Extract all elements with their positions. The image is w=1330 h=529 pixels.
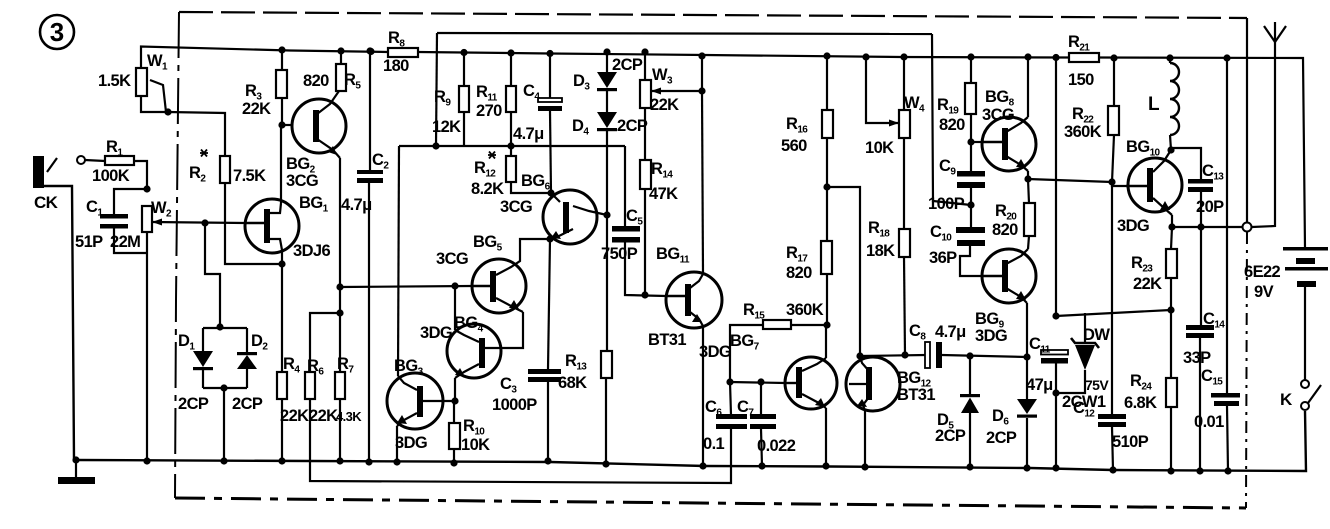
CK jack tip contact	[47, 158, 57, 172]
svg-text:3CG: 3CG	[500, 198, 532, 216]
wire L bottom	[1170, 135, 1171, 150]
wire +9V top rail middle segment	[418, 52, 1069, 58]
node BG6 emitter/BG5 collector/C3	[546, 235, 553, 242]
svg-text:68K: 68K	[558, 374, 587, 392]
BG6 emitter lead	[550, 229, 573, 239]
junction W2 ground	[143, 457, 150, 464]
battery negative plate 2	[1297, 281, 1316, 287]
svg-text:180: 180	[383, 57, 409, 75]
wire C9-C10	[970, 188, 972, 227]
BG8 emitter arrow	[1016, 159, 1026, 168]
resistor R15	[763, 320, 791, 329]
wire C2 top	[369, 51, 371, 171]
svg-text:18K: 18K	[866, 242, 895, 260]
diode D6	[1017, 399, 1037, 414]
BG8 emitter lead	[1006, 156, 1028, 171]
D5 cathode bar	[960, 394, 980, 397]
wire BG8 emitter	[1027, 171, 1029, 179]
junction W4 rail	[900, 53, 907, 60]
svg-text:3CG: 3CG	[982, 106, 1014, 124]
transistor BG7	[785, 357, 837, 409]
BG1 gate lead	[245, 222, 264, 224]
node D5	[966, 352, 973, 359]
wire R19 bottom to C9	[970, 114, 972, 171]
resistor R5	[336, 64, 346, 91]
wire R10 to ground	[453, 449, 455, 463]
wire R20 to BG9 collector	[1028, 236, 1029, 249]
W2 wiper arrow	[152, 219, 162, 226]
junction R10 ground	[450, 459, 457, 466]
battery positive plate	[1283, 247, 1328, 251]
junction R9 rail	[460, 49, 467, 56]
BG3 collector lead	[398, 376, 417, 390]
BG10 emitter arrow	[1160, 201, 1170, 210]
BG7 base lead	[785, 382, 796, 384]
BG1 bar	[264, 209, 270, 243]
BG11 emitter arrow	[692, 314, 702, 322]
junction R6/R7	[336, 309, 343, 316]
svg-text:1000P: 1000P	[492, 396, 537, 414]
BG8 bar	[1002, 128, 1008, 160]
capacitor C13 top plate	[1188, 179, 1213, 184]
capacitor C7 bottom plate	[750, 424, 776, 429]
BG12 base lead	[849, 383, 866, 385]
CK tip terminal	[77, 156, 85, 164]
capacitor C5 bottom plate	[612, 237, 640, 243]
wire W4 wiper from rail	[866, 57, 899, 123]
wire R12 top	[510, 146, 512, 156]
node C11/DW top	[1052, 312, 1059, 319]
capacitor C6 bottom plate	[716, 424, 747, 429]
wire R7 to ground	[339, 399, 341, 461]
diode D4	[597, 112, 617, 128]
BG4 collector lead	[455, 330, 479, 342]
wire R4 to ground	[281, 399, 283, 461]
junction C13/antenna wire	[1197, 223, 1204, 230]
svg-text:7.5K: 7.5K	[233, 167, 266, 185]
transistor BG1	[245, 199, 299, 253]
node BG12 collector	[856, 352, 863, 359]
capacitor C8 left plate	[925, 342, 930, 368]
D4 cathode bar	[597, 128, 617, 131]
junction before R8	[367, 48, 374, 55]
capacitor C5 top plate	[612, 226, 640, 232]
resistor R17	[821, 241, 832, 274]
svg-text:22K: 22K	[650, 96, 679, 114]
svg-text:3CG: 3CG	[436, 250, 468, 268]
resistor R23	[1166, 249, 1177, 278]
svg-text:BT31: BT31	[897, 386, 935, 404]
wire R6 bottom feedback bus to C6	[310, 399, 731, 483]
junction R3 rail	[278, 46, 285, 53]
wire node down to C12	[1111, 186, 1113, 414]
svg-text:360K: 360K	[1064, 123, 1102, 141]
wire C10 bottom to BG9 base	[960, 246, 982, 276]
BG12 emitter lead	[863, 397, 869, 411]
wire to C5 top	[624, 146, 626, 226]
BG4 emitter arrow	[455, 368, 465, 377]
junction C12 ground	[1109, 466, 1116, 473]
node L/BG10 collector/C13	[1167, 146, 1174, 153]
wire R16 top	[826, 56, 828, 110]
node R15/R17/BG7 collector	[823, 321, 830, 328]
BG9 emitter arrow	[1016, 291, 1026, 300]
svg-text:2CP: 2CP	[232, 395, 263, 413]
node C4/BG6 base	[547, 189, 554, 196]
svg-text:3CG: 3CG	[286, 172, 318, 190]
node C9/C10 divider	[967, 201, 974, 208]
switch K upper contact	[1301, 380, 1309, 388]
wire R23 bottom	[1170, 278, 1172, 310]
svg-text:510P: 510P	[1112, 433, 1149, 451]
BG12 collector lead	[860, 356, 869, 371]
wire limiter top bus	[203, 327, 247, 329]
wire R6 top link	[310, 313, 340, 372]
enclosure border left (dash-dot)	[175, 12, 179, 498]
svg-text:8.2K: 8.2K	[471, 180, 504, 198]
battery negative plate 1	[1296, 258, 1315, 264]
BG7 collector lead	[802, 358, 826, 371]
svg-text:360K: 360K	[786, 301, 824, 319]
BG5 collector lead to BG6 emitter node	[496, 239, 550, 275]
wire R3 top	[281, 50, 283, 70]
wire to C1 top	[114, 189, 147, 214]
wire W2 bottom to ground rail	[146, 232, 148, 461]
svg-text:22K: 22K	[242, 100, 271, 118]
node BG3 base/R10	[451, 397, 458, 404]
wire R22 top	[1113, 58, 1115, 106]
node W2 wiper	[201, 219, 208, 226]
potentiometer W1	[136, 68, 147, 96]
BG11 base lead	[666, 295, 685, 297]
BG4 bar	[479, 338, 485, 368]
BG12 bar	[866, 367, 872, 400]
BG6 base lead	[551, 193, 560, 202]
wire C3 top	[548, 239, 550, 369]
svg-text:0.022: 0.022	[757, 437, 796, 455]
svg-text:33P: 33P	[1183, 349, 1211, 367]
wire C14 to ground	[1199, 338, 1201, 471]
svg-text:10K: 10K	[461, 436, 490, 454]
capacitor C9 top plate	[957, 171, 985, 177]
wire W3 wiper	[651, 90, 702, 92]
svg-text:3DG: 3DG	[420, 324, 452, 342]
wire BG1 source	[281, 250, 283, 264]
svg-text:4.7μ: 4.7μ	[341, 196, 372, 214]
capacitor C4 top plate	[538, 98, 562, 102]
wire R20 top	[1028, 179, 1029, 203]
BG3 base lead to node	[423, 400, 455, 402]
junction BG11 ground	[699, 462, 706, 469]
resistor R6	[305, 372, 315, 399]
node R1/W2/C1	[143, 185, 150, 192]
wire C4 bottom	[550, 111, 551, 193]
svg-text:22K: 22K	[280, 407, 309, 425]
svg-text:820: 820	[303, 72, 329, 90]
BG1 source lead inner	[270, 239, 282, 250]
wire +9V top rail left segment	[141, 47, 388, 68]
capacitor C15 top plate	[1211, 393, 1240, 398]
wire BG4 collector up	[454, 286, 456, 330]
capacitor C14 top plate	[1186, 325, 1214, 330]
wire BG8 collector to rail	[1027, 57, 1029, 117]
BG8 collector lead	[1006, 117, 1028, 132]
BG10 collector lead	[1153, 150, 1171, 172]
wire C1 bottom to W2 line	[114, 228, 147, 253]
BG3 bar	[417, 386, 423, 417]
svg-text:560: 560	[781, 137, 807, 155]
resistor R24	[1166, 378, 1177, 407]
resistor R10	[449, 423, 460, 449]
wire R23 top	[1171, 227, 1172, 249]
svg-text:1.5K: 1.5K	[98, 72, 131, 90]
node R11/R12	[507, 142, 514, 149]
BG2 collector lead	[317, 91, 339, 114]
svg-text:47μ: 47μ	[1026, 376, 1053, 394]
junction BG7 ground	[822, 462, 829, 469]
wire antenna lead	[1252, 42, 1275, 227]
BG9 collector lead	[1006, 249, 1028, 264]
junction limiter bottom	[220, 384, 227, 391]
ground	[58, 477, 95, 484]
wire BG7 collector up	[825, 325, 827, 358]
BG2 emitter arrow	[328, 146, 337, 155]
svg-text:2CP: 2CP	[935, 427, 966, 445]
W1 wiper arm	[150, 80, 166, 112]
wire bus to C8	[860, 355, 926, 356]
node bypass/R9	[432, 142, 439, 149]
resistor R22	[1108, 106, 1119, 135]
capacitor C6 top plate	[716, 414, 747, 419]
wire to R4	[281, 264, 283, 372]
junction C4 rail	[546, 50, 553, 57]
svg-text:75V: 75V	[1085, 377, 1109, 393]
wire limiter bottom bus	[203, 387, 247, 389]
svg-text:3DG: 3DG	[395, 434, 427, 452]
svg-text:0.01: 0.01	[1194, 413, 1224, 431]
figure number 3	[40, 15, 74, 49]
svg-text:820: 820	[992, 221, 1018, 239]
wire D5 anode to ground	[969, 413, 971, 467]
microphone jack CK body	[33, 156, 44, 188]
wire C7 bottom to ground	[761, 429, 762, 466]
svg-text:2CP: 2CP	[986, 429, 1017, 447]
diode D3	[597, 72, 617, 88]
wire BG10 base	[1112, 182, 1126, 186]
wire C7 top	[760, 382, 762, 415]
capacitor C3 top plate	[528, 369, 561, 374]
capacitor C7 top plate	[750, 414, 776, 419]
wire R12 bottom to BG6 base	[511, 182, 551, 193]
junction W4 wiper rail	[862, 53, 869, 60]
node BG6 collector	[603, 211, 610, 218]
node R22/BG10 base/C12	[1108, 178, 1115, 185]
wire ground stub	[75, 460, 77, 477]
junction limiter ground	[220, 457, 227, 464]
potentiometer W2	[142, 206, 152, 232]
BG9 bar	[1002, 260, 1008, 292]
wire R15 right to collector node	[791, 324, 827, 326]
svg-text:K: K	[1280, 390, 1293, 409]
wire bypass right drop to C9/C10 node	[932, 34, 971, 205]
transistor BG9	[982, 249, 1036, 303]
wire C11 bottom	[1055, 363, 1057, 393]
svg-text:750P: 750P	[601, 245, 638, 263]
BG11 emitter lead	[690, 312, 703, 326]
BG10 bar	[1147, 168, 1153, 202]
wire D3 anode	[606, 52, 608, 72]
W4 wiper arrow	[889, 120, 899, 127]
D2 cathode bar	[237, 352, 257, 355]
wire limiter to ground	[223, 388, 225, 461]
node R19/BG8 base	[967, 138, 974, 145]
wire C4 top	[549, 54, 551, 100]
wire R18 bottom	[904, 257, 905, 355]
wire R11 top	[510, 53, 512, 86]
node BG9 emitter/D6	[1023, 353, 1030, 360]
svg-text:47K: 47K	[649, 185, 678, 203]
wire wiper node to rail	[701, 56, 703, 91]
junction R22 rail	[1110, 54, 1117, 61]
BG11 collector lead	[690, 274, 703, 288]
junction C3 ground	[544, 457, 551, 464]
capacitor C4 bottom plate	[538, 106, 562, 111]
BG9 base lead	[982, 275, 1002, 277]
resistor R18	[899, 229, 910, 257]
wire L node to C13	[1171, 148, 1201, 179]
BG12 emitter arrow	[857, 399, 867, 407]
wire C13 bottom to C14	[1200, 191, 1202, 326]
wire CK to R1	[85, 160, 105, 161]
wire D5 cathode up	[969, 356, 971, 395]
junction D6 ground	[1023, 464, 1030, 471]
svg-text:L: L	[1148, 94, 1160, 115]
wire R22 bottom	[1112, 135, 1114, 182]
wire R2 bottom to BG1 source	[225, 183, 282, 264]
wire BG7 emitter to ground	[825, 408, 827, 466]
junction R19 rail	[967, 53, 974, 60]
svg-text:22K: 22K	[309, 407, 338, 425]
svg-text:6.8K: 6.8K	[1124, 394, 1157, 412]
resistor R9	[459, 86, 469, 112]
resistor R14	[640, 160, 651, 189]
diode D1	[193, 351, 213, 367]
wire rail to C11/DW	[1055, 58, 1057, 317]
BG8 base lead	[982, 141, 1002, 143]
node R23/R24/zener	[1167, 306, 1174, 313]
svg-text:6E22: 6E22	[1244, 263, 1281, 281]
svg-text:BT31: BT31	[648, 331, 686, 349]
svg-text:4.7μ: 4.7μ	[513, 125, 544, 143]
BG6 collector lead	[573, 206, 607, 215]
wire C5 bottom to BG11 base	[625, 242, 666, 296]
junction limiter top	[216, 323, 223, 330]
wire top rail right segment to battery	[1099, 58, 1305, 249]
junction wiper rail	[698, 52, 705, 59]
capacitor C12 top plate	[1098, 414, 1126, 419]
BG5 base lead	[471, 285, 490, 287]
BG6 bar	[563, 202, 569, 233]
wire D6 cathode to ground	[1026, 418, 1028, 468]
svg-text:51P: 51P	[75, 233, 103, 251]
D6 cathode bar	[1017, 415, 1037, 418]
junction R4 ground	[278, 457, 285, 464]
junction C14 ground	[1196, 467, 1203, 474]
DW zener cathode bar	[1071, 338, 1099, 348]
transistor BG3	[387, 373, 443, 429]
switch K lower contact	[1301, 402, 1309, 410]
junction R16 rail	[823, 52, 830, 59]
wire BG3 collector drop x398	[398, 146, 399, 376]
transistor BG10	[1128, 158, 1182, 212]
junction R5 rail	[337, 47, 344, 54]
wire BG3 emitter to ground	[396, 426, 398, 462]
node C7/BG7 base	[757, 378, 764, 385]
wire DW cathode	[1084, 313, 1086, 344]
wire BG2 emitter down	[339, 158, 341, 287]
wire W1 node to R2 top	[168, 112, 225, 156]
wire BG1 drain to R3/BG2 base	[280, 125, 282, 203]
BG4 emitter lead	[455, 364, 479, 378]
junction D5 ground	[966, 463, 973, 470]
BG7 emitter lead	[802, 394, 826, 408]
node BG4 collector/BG5 base	[451, 282, 458, 289]
enclosure border bottom (dashed)	[175, 498, 1246, 508]
svg-text:3DG: 3DG	[1117, 217, 1149, 235]
svg-text:3DG: 3DG	[975, 327, 1007, 345]
wire BG9 emitter down	[1026, 303, 1028, 357]
node W3 wiper	[698, 87, 705, 94]
junction W3 rail	[641, 48, 648, 55]
svg-text:270: 270	[476, 102, 502, 120]
wire bypass top y33	[437, 33, 932, 34]
wire BG7 base bus	[730, 382, 785, 383]
wire W4 top	[903, 57, 905, 110]
wire D4 cathode down to R13	[606, 131, 608, 351]
junction D3 rail	[603, 48, 610, 55]
node R14/C5/BG11 base	[641, 291, 648, 298]
junction C2 ground	[365, 458, 372, 465]
node BG2 emitter/R7	[336, 283, 343, 290]
BG7 emitter arrow	[815, 398, 825, 407]
wire C6 top	[730, 382, 731, 415]
transistor BG8	[982, 117, 1036, 171]
wire R3 bottom	[281, 98, 283, 125]
capacitor C15 bottom plate	[1214, 401, 1239, 406]
wire D2 anode	[246, 369, 248, 388]
D3 cathode bar	[597, 88, 617, 91]
junction R24 ground	[1167, 467, 1174, 474]
wire R9 top	[463, 53, 465, 87]
capacitor C10 bottom plate	[957, 240, 985, 246]
svg-text:36P: 36P	[929, 249, 957, 267]
capacitor C8 right plate	[936, 342, 942, 368]
wire L top	[1169, 58, 1171, 63]
transistor BG11	[666, 272, 722, 328]
transistor BG6	[543, 190, 597, 244]
wire CK sleeve to ground rail	[44, 186, 74, 460]
resistor R20	[1024, 203, 1035, 236]
resistor R1	[105, 156, 134, 165]
D1 cathode bar	[193, 367, 213, 370]
W3 wiper arrow	[651, 88, 661, 95]
wire R14 bottom	[644, 189, 646, 295]
antenna terminal	[1243, 223, 1252, 232]
svg-text:12K: 12K	[432, 118, 461, 136]
wire D1 anode	[202, 328, 204, 351]
asterisk R2	[200, 150, 208, 157]
transistor BG4	[447, 324, 501, 378]
